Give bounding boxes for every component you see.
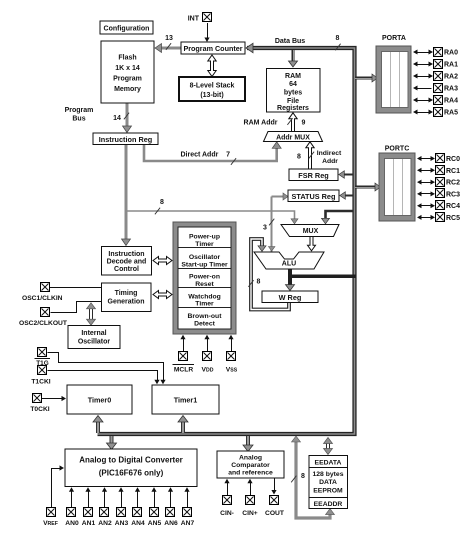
wire Timing Generation to reset block double arrow (153, 291, 172, 299)
block STATUS Reg (288, 190, 339, 202)
wire INT to Program Counter (207, 23, 209, 39)
svg-text:Generation: Generation (108, 298, 145, 305)
svg-text:Power-on: Power-on (189, 274, 220, 281)
wire data bus arrow into Program Counter (246, 43, 253, 53)
svg-text:RC1: RC1 (446, 168, 460, 175)
svg-text:Control: Control (114, 266, 139, 273)
svg-text:PORTC: PORTC (385, 146, 410, 153)
wire RAM Addr (9) Addr MUX to RAM (289, 113, 297, 132)
block 8-Level Stack (179, 77, 245, 101)
block FSR Reg (289, 169, 338, 181)
svg-text:8: 8 (257, 278, 261, 285)
block Instruction Reg (93, 133, 158, 145)
svg-text:Instruction Reg: Instruction Reg (99, 135, 153, 144)
svg-text:Internal: Internal (81, 330, 106, 337)
pin RC1 (419, 170, 434, 172)
svg-text:14: 14 (113, 115, 121, 122)
wire bus to ADC (109, 436, 113, 445)
svg-text:Program: Program (65, 107, 94, 114)
pin T1G (38, 348, 47, 357)
svg-text:T0CKI: T0CKI (30, 406, 49, 413)
svg-text:Decode and: Decode and (107, 258, 147, 265)
block W Reg (262, 291, 318, 303)
svg-text:AN2: AN2 (98, 520, 112, 527)
svg-text:bytes: bytes (284, 90, 302, 97)
svg-text:(13-bit): (13-bit) (200, 92, 223, 99)
svg-text:CIN+: CIN+ (242, 510, 258, 517)
pin RC5 (419, 217, 434, 219)
pin RA1 (415, 64, 432, 66)
svg-text:3: 3 (263, 225, 267, 232)
svg-text:RC3: RC3 (446, 191, 460, 198)
pin AN7 (187, 490, 189, 507)
wire data bus to MUX right input (326, 211, 354, 218)
svg-text:MUX: MUX (303, 228, 319, 235)
svg-text:Instruction: Instruction (108, 251, 144, 258)
wire bus Program Counter to Flash (13) (160, 47, 181, 50)
svg-text:Reset: Reset (195, 281, 214, 288)
svg-text:STATUS Reg: STATUS Reg (292, 192, 336, 201)
wire Internal Oscillator double arrow (89, 308, 91, 320)
wire data bus drop into RAM (291, 50, 294, 62)
svg-text:OSC2/CLKOUT: OSC2/CLKOUT (19, 320, 68, 327)
svg-text:Flash: Flash (118, 55, 136, 62)
block reset-and-timers group (Power-up Timer / OST / POR / WDT / BOD) (173, 222, 236, 334)
svg-text:Program Counter: Program Counter (183, 44, 242, 53)
pin VSS (231, 338, 233, 351)
pin AN3 (121, 490, 123, 507)
svg-text:Analog to Digital Converter: Analog to Digital Converter (79, 456, 183, 465)
svg-text:Registers: Registers (277, 105, 309, 112)
svg-text:8: 8 (336, 35, 340, 42)
svg-text:Timer0: Timer0 (88, 396, 111, 405)
block Timer0 (67, 385, 132, 414)
svg-text:RAM: RAM (285, 73, 301, 80)
svg-text:Power-up: Power-up (189, 234, 220, 241)
wire data bus to PORTA (355, 77, 373, 80)
wire Program Counter to Stack double arrow (208, 55, 216, 77)
svg-text:Watchdog: Watchdog (188, 293, 221, 300)
pin RC4 (419, 205, 434, 207)
svg-text:Memory: Memory (114, 86, 141, 93)
svg-text:OSC1/CLKIN: OSC1/CLKIN (22, 295, 63, 302)
pin CIN- (227, 482, 229, 496)
pin RC2 (419, 182, 434, 184)
svg-text:MCLR: MCLR (174, 367, 193, 374)
pin RA3 (415, 88, 432, 90)
svg-text:128 bytes: 128 bytes (313, 471, 344, 478)
svg-text:File: File (287, 98, 299, 105)
wire bus to Timer0 (96, 421, 100, 434)
svg-text:Timer: Timer (195, 241, 214, 248)
svg-text:64: 64 (289, 81, 297, 88)
pin RA2 (415, 76, 432, 78)
pin RA4 (415, 100, 432, 102)
svg-text:RA1: RA1 (444, 62, 458, 69)
svg-text:AN6: AN6 (164, 520, 178, 527)
pin RC0 (419, 158, 434, 160)
block Analog to Digital Converter (65, 449, 197, 487)
svg-text:RC5: RC5 (446, 215, 460, 222)
block Program Counter (181, 42, 245, 54)
svg-text:Addr: Addr (322, 158, 338, 165)
pin AN4 (137, 490, 139, 507)
block RAM File Registers (267, 69, 321, 113)
pin AN0 (71, 490, 73, 507)
pin OSC2/CLKOUT (41, 308, 50, 317)
block Analog Comparator and reference (217, 451, 284, 478)
pin AN6 (170, 490, 172, 507)
svg-text:AN1: AN1 (82, 520, 96, 527)
svg-text:Addr MUX: Addr MUX (276, 135, 310, 142)
block Timer1 (152, 385, 219, 414)
wire Indirect Addr (8) FSR to Addr MUX (306, 142, 314, 169)
svg-text:RA4: RA4 (444, 98, 458, 105)
svg-text:Indirect: Indirect (317, 150, 342, 157)
pin T0CKI (33, 394, 42, 403)
svg-text:EEPROM: EEPROM (313, 488, 343, 495)
svg-text:8: 8 (160, 199, 164, 206)
svg-text:INT: INT (188, 16, 200, 23)
svg-text:T1CKI: T1CKI (31, 379, 50, 386)
svg-text:9: 9 (302, 120, 306, 127)
wire ALU output to W Reg and data bus (288, 269, 292, 286)
svg-text:13: 13 (165, 35, 173, 42)
svg-text:8-Level Stack: 8-Level Stack (190, 83, 235, 90)
svg-text:AN7: AN7 (181, 520, 195, 527)
pin OSC1/CLKIN (41, 283, 50, 292)
wire Direct Addr (7) Instruction Reg to Addr MUX (144, 144, 277, 161)
pin T1CKI (38, 366, 47, 375)
svg-text:RC0: RC0 (446, 156, 460, 163)
pin AN5 (154, 490, 156, 507)
svg-text:AN3: AN3 (115, 520, 129, 527)
pin RC3 (419, 193, 434, 195)
svg-text:RC2: RC2 (446, 180, 460, 187)
svg-text:Brown-out: Brown-out (188, 313, 223, 320)
block DATA EEPROM (309, 456, 348, 509)
block Internal Oscillator (68, 326, 120, 349)
svg-text:Oscillator: Oscillator (189, 254, 221, 261)
svg-text:VREF: VREF (43, 520, 58, 527)
svg-text:Program: Program (113, 76, 142, 83)
svg-text:PORTA: PORTA (382, 35, 406, 42)
svg-text:Detect: Detect (194, 320, 216, 327)
svg-text:AN4: AN4 (131, 520, 145, 527)
pin AN2 (104, 490, 106, 507)
mux Addr MUX (264, 132, 323, 142)
svg-text:W Reg: W Reg (279, 293, 302, 302)
svg-text:RAM Addr: RAM Addr (244, 120, 278, 127)
wire status bus (3) to ALU and STATUS Reg (271, 197, 273, 253)
wire data bus to PORTC (355, 186, 376, 189)
svg-text:(PIC16F676 only): (PIC16F676 only) (99, 469, 164, 478)
block Configuration (100, 21, 153, 34)
svg-text:RA2: RA2 (444, 74, 458, 81)
svg-text:AN0: AN0 (65, 520, 79, 527)
svg-text:VSS: VSS (226, 367, 238, 374)
block Flash Program Memory (101, 41, 154, 103)
svg-text:Timer: Timer (195, 301, 214, 308)
wire program bus Flash to Instruction Reg (14) (126, 103, 129, 128)
svg-text:8: 8 (297, 154, 301, 161)
svg-text:COUT: COUT (265, 510, 285, 517)
wire data bus to FSR Reg (342, 173, 353, 175)
wire EEDATA double arrow to data bus (326, 443, 328, 450)
pin MCLR (183, 338, 185, 351)
svg-text:ALU: ALU (282, 260, 296, 267)
svg-text:VDD: VDD (202, 367, 214, 374)
wire W Reg feedback loop to ALU (8) (251, 239, 289, 310)
alu ALU (254, 252, 324, 269)
svg-text:RA5: RA5 (444, 110, 458, 117)
svg-text:DATA: DATA (319, 479, 337, 486)
svg-text:Start-up Timer: Start-up Timer (181, 261, 228, 268)
svg-text:Oscillator: Oscillator (78, 338, 111, 345)
pin COUT (274, 478, 276, 492)
svg-text:RA0: RA0 (444, 50, 458, 57)
svg-text:Bus: Bus (72, 116, 85, 123)
wire Instruction Reg to Instruction Decode (125, 144, 128, 241)
wire bus to Analog Comparator (246, 436, 250, 447)
wire literal bus (8) to MUX left input (127, 211, 295, 219)
svg-text:Analog: Analog (239, 454, 262, 461)
svg-text:1K x 14: 1K x 14 (115, 65, 140, 72)
svg-text:Timing: Timing (115, 290, 138, 297)
svg-text:CIN-: CIN- (220, 510, 234, 517)
svg-text:Data Bus: Data Bus (275, 38, 305, 45)
pin VDD (207, 338, 209, 351)
mux MUX (281, 225, 339, 237)
pin CIN+ (250, 482, 252, 496)
wire EEADDR address path (8) (296, 440, 330, 518)
pin AN1 (88, 490, 90, 507)
svg-text:8: 8 (301, 473, 305, 480)
wire data bus to STATUS Reg (343, 194, 353, 196)
wire data bus main (horizontal top, right vertical, bottom horizontal) (98, 48, 355, 434)
svg-text:Timer1: Timer1 (174, 396, 197, 405)
wire bus to Timer1 (181, 421, 185, 434)
svg-text:RC4: RC4 (446, 203, 460, 210)
svg-text:FSR Reg: FSR Reg (298, 171, 328, 180)
svg-text:EEADDR: EEADDR (314, 501, 343, 508)
svg-text:and reference: and reference (228, 470, 273, 477)
svg-text:AN5: AN5 (148, 520, 162, 527)
svg-text:Comparator: Comparator (231, 462, 270, 469)
block Instruction Decode and Control (102, 247, 152, 276)
svg-text:EEDATA: EEDATA (315, 459, 342, 466)
wire MUX to ALU (308, 237, 316, 251)
pin VREF (52, 469, 62, 508)
block Timing Generation (102, 283, 152, 312)
pin RA5 (415, 112, 432, 114)
svg-text:Direct Addr 7: Direct Addr 7 (180, 152, 230, 159)
svg-text:RA3: RA3 (444, 86, 458, 93)
pin RA0 (415, 52, 432, 54)
wire Instruction Decode to reset block double arrow (153, 257, 172, 265)
svg-text:Configuration: Configuration (104, 26, 150, 33)
